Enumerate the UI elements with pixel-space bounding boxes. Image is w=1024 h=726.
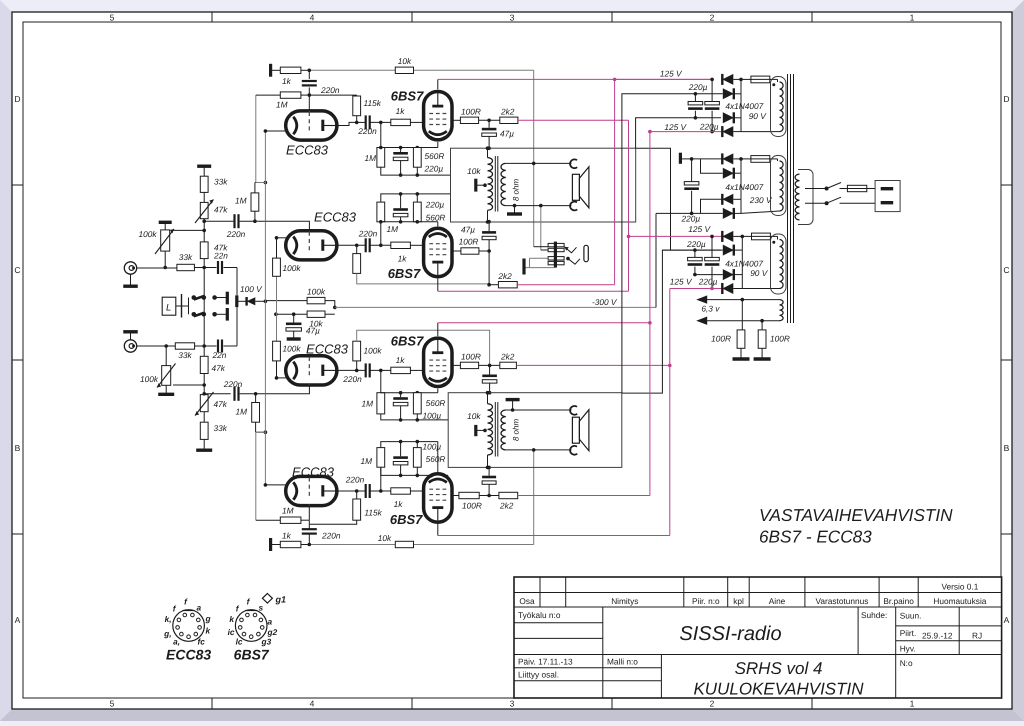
svg-text:100µ: 100µ [423,410,442,420]
capacitor 220n coupling row2 [365,238,367,252]
svg-text:A: A [15,615,21,625]
transformer winding 90V top [780,82,784,132]
resistor 100k feedback [307,297,325,303]
svg-text:8 ohm: 8 ohm [512,419,521,442]
svg-text:1k: 1k [282,531,292,541]
plate wire V5 to coupling [336,369,366,371]
capacitor 220u bridge1 right [711,79,713,101]
svg-text:Nimitys: Nimitys [611,596,638,606]
resistor 560R cathode row2 [413,202,421,222]
jack feed wires [534,246,548,248]
resistor 47k upper ch2 [200,356,208,373]
capacitor 220u bridge2 [691,159,693,182]
svg-text:47µ: 47µ [306,326,320,336]
svg-text:1M: 1M [276,100,288,110]
svg-text:a,: a, [173,637,180,647]
magenta bus C [649,132,651,496]
potentiometer 100k volume ch1 [159,221,172,224]
wire divider node down ch1 [203,268,205,347]
ground 100R left [740,348,742,357]
title block header columns [539,577,541,607]
svg-text:SISSI-radio: SISSI-radio [679,623,781,645]
svg-text:90 V: 90 V [750,268,769,278]
svg-text:Suun.: Suun. [900,611,922,621]
svg-text:8 ohm: 8 ohm [512,179,521,202]
cathode stem 6BS7 row2 [437,222,439,227]
headphone jack sleeve bar [554,242,557,268]
wire 33k to node ch2 [195,345,205,347]
wiper wire 100k pot to divider ch1 [172,229,204,231]
cathode bias bus vertical [276,238,278,378]
pentode 6BS7 V4 [424,228,452,276]
resistor 2k2 row1 [500,117,518,123]
svg-text:C: C [1003,265,1009,275]
node after cap row1 [370,121,391,123]
svg-text:220µ: 220µ [681,214,701,224]
switch contacts row 1 [182,305,189,307]
svg-text:2k2: 2k2 [497,271,512,281]
ground 47u feedback [287,337,301,340]
pentode 6BS7 V6 [424,338,452,386]
resistor 1k grid stopper row2 [391,242,411,248]
svg-text:6BS7: 6BS7 [391,334,424,349]
wire 1k to 6BS7 row2 [410,244,425,246]
headphone jack contacts lower [548,257,564,260]
svg-text:2k2: 2k2 [500,352,515,362]
fuse bridge 1 [741,78,751,80]
svg-text:4: 4 [310,699,315,709]
svg-text:220n: 220n [321,531,341,541]
svg-text:1: 1 [910,699,915,709]
svg-text:1k: 1k [282,76,292,86]
svg-text:100R: 100R [711,334,731,344]
resistor 1M grid leak row3 [380,370,382,392]
wiper wire pot ch2 [173,384,204,386]
svg-text:6BS7: 6BS7 [388,266,421,281]
cathode return row2 [381,221,438,223]
svg-text:10k: 10k [467,411,481,421]
plate wire 6BS7 row2 [437,279,439,292]
resistor 100k cathode row3 [276,361,278,378]
magenta plate line row2 [438,290,629,292]
svg-text:g: g [205,614,211,624]
title block right rows [896,625,1002,627]
rail terminal row1 top-left [269,64,272,77]
resistor 2k2 row2 [498,282,517,288]
transformer core [787,74,789,323]
resistor 100R row4 [452,495,459,497]
wire 1M to row1 grid bus [256,94,280,96]
RCA input jack ch1 [124,262,136,274]
earpiece box L [162,297,176,315]
speaker terminal hooks ch2 [570,406,577,415]
resistor 100R hum right [761,321,763,330]
rail terminal top of input divider [197,164,211,167]
svg-text:ECC83: ECC83 [292,465,335,480]
svg-text:-300 V: -300 V [592,297,618,307]
socket diagram ECC83 [173,610,205,642]
rail terminal jack [522,259,525,275]
diode D1 [615,78,713,80]
cathode return row1 [381,167,451,175]
jack switch plate lower [226,308,229,321]
secondary top wire ch2 [506,409,513,411]
svg-text:220µ: 220µ [424,164,444,174]
switch contacts row 2 [192,312,197,317]
magenta 2k2 line row2 [517,284,614,286]
svg-text:1k: 1k [394,499,404,509]
svg-text:C: C [14,265,20,275]
svg-text:Huomautuksia: Huomautuksia [933,596,986,606]
svg-text:1k: 1k [396,106,406,116]
transformer OPT1 secondary [501,163,506,205]
svg-text:47k: 47k [214,205,228,215]
magenta 2k2 line row1 [518,119,629,121]
svg-text:6BS7: 6BS7 [391,88,424,103]
svg-text:6,3 v: 6,3 v [701,304,720,314]
cathode rail row4 bottom [381,442,438,448]
plate wire V3 to coupling [336,244,366,246]
cathode rail row3 top [381,392,438,394]
capacitor 220n coupling row1 [357,121,366,123]
wire 1M row4 to grid bus [256,519,280,521]
svg-text:90 V: 90 V [749,111,768,121]
wire bridge1 to winding bottom [741,131,780,133]
cathode wire V1 [265,130,286,132]
speaker return bus ch1 [540,206,542,250]
svg-text:100 V: 100 V [240,284,263,294]
capacitor 220n coupling row4 [365,484,367,498]
resistor 115k bias row2 [356,245,358,253]
speaker terminal hooks ch1 [570,159,577,168]
plate wire 6BS7 row1 to supply [437,79,439,89]
mains primary winding [795,174,799,220]
diode D5 [692,158,723,160]
svg-text:k: k [229,614,234,624]
page bevel right [1012,0,1024,721]
capacitor 220u bridge3 left [694,250,696,257]
svg-text:a: a [197,603,202,613]
wire 220n to grid line ch1 [240,220,266,222]
diode D9 [629,235,723,237]
socket diagram 6BS7 [235,610,267,642]
svg-text:33k: 33k [214,177,228,187]
cathode stem 6BS7 row3 [437,389,439,393]
capacitor 220n row4 bottom [302,528,317,530]
resistor 115k row1 [356,94,358,97]
svg-text:D: D [14,94,20,104]
diode D3 [723,112,734,123]
resistor 33k input divider ch1 [200,176,208,192]
svg-text:4: 4 [310,13,315,23]
svg-text:3: 3 [510,699,515,709]
row1 grid feed bus [255,95,257,182]
headphone jack switch arm upper [564,247,576,253]
svg-text:47k: 47k [212,363,226,373]
triode ECC83 V5 [286,356,337,385]
svg-text:RJ: RJ [972,631,982,641]
pentode 6BS7 V8 [424,474,452,522]
wire 1k to 6BS7 row3 [410,369,425,371]
svg-text:ECC83: ECC83 [314,210,357,225]
svg-text:B: B [1004,443,1010,453]
wire 220n to 115k row1 [309,87,356,95]
mains wire upper [805,188,827,190]
svg-text:4x1N4007: 4x1N4007 [725,182,763,192]
svg-text:100k: 100k [139,229,158,239]
capacitor 220u bridge3 right [711,236,713,257]
capacitor 22n ch2 [204,345,216,347]
transformer winding 230V [780,161,784,211]
speaker channel 1 [572,174,579,200]
wire 22n to switch [224,267,238,269]
wire 100k row3 to screen node [357,330,490,365]
resistor 1k grid stopper row1 [391,119,411,125]
diode D11 [695,274,723,276]
title block row divider [514,654,1002,656]
transformer winding 6.3V [780,300,784,321]
svg-text:100R: 100R [770,334,790,344]
resistor 100k bias row3 [353,341,361,361]
diode D6 [701,159,723,173]
magenta plate line row3 [438,322,650,324]
svg-text:100µ: 100µ [423,442,442,452]
magenta 2k2 line row4 [518,495,650,497]
svg-text:s: s [259,603,264,613]
wire plate V1 to coupling row1 [336,122,356,125]
svg-text:4x1N4007: 4x1N4007 [725,101,763,111]
diode D2 [694,92,698,96]
svg-text:560R: 560R [426,454,446,464]
feedback bus bottom vertical [533,450,535,545]
wire 1M ch1 to bus [255,182,266,184]
resistor 1M grid ch2 [255,394,257,403]
wire 47k to node [203,259,205,268]
node 100R/2k2 row3 [479,364,500,366]
wire 100k pot to input line [164,251,166,267]
capacitor 220n input ch2 [233,387,235,401]
headphone jack contacts upper [548,243,564,246]
wire 115k row2 to screen node [357,273,489,284]
capacitor 47u row1 [488,120,490,128]
svg-text:22n: 22n [213,251,228,261]
capacitor 220u cathode row1 [400,148,402,153]
capacitor 47u row4 [488,485,490,496]
title block bottom rows [514,667,661,669]
wire RCA to 33k series ch1 [137,267,177,269]
svg-text:Suhde:: Suhde: [861,610,887,620]
svg-text:g3: g3 [261,637,272,647]
resistor 1M grid leak row1 [380,122,382,147]
svg-text:Työkalu n:o: Työkalu n:o [518,610,561,620]
grid wire V3 [265,221,309,231]
svg-text:Varastotunnus: Varastotunnus [815,596,868,606]
svg-text:33k: 33k [178,350,192,360]
resistor 1k row1 [280,67,301,73]
rail terminal OPT2 secondary top [506,398,520,401]
svg-text:220n: 220n [345,474,365,484]
svg-text:1M: 1M [361,399,373,409]
capacitor 220n coupling row3 [365,363,367,377]
title block mid verticals [602,607,604,698]
svg-text:5: 5 [110,13,115,23]
svg-text:1M: 1M [387,224,399,234]
jack lower feed wires [530,257,549,259]
triode ECC83 V3 [286,231,337,260]
socket 6BS7 g1 cap [262,594,272,604]
bus box2 feed [622,250,721,393]
svg-text:47k: 47k [214,399,228,409]
wire screen node down row2 [488,251,490,285]
svg-text:k,: k, [165,614,172,624]
magenta plate line row1 [438,78,712,80]
ruler ticks left and right [12,184,23,186]
pentode 6BS7 V2 [424,92,452,140]
wire junction to input cap 220n ch1 [204,220,233,222]
svg-text:220n: 220n [223,379,243,389]
transformer OPT2 secondary [501,410,506,450]
cathode bus vertical [264,131,266,485]
wire 10k to grid-leak bus [276,313,307,315]
resistor 2k2 row3 [500,362,517,368]
resistor 2k2 row4 [499,492,518,498]
svg-text:6BS7: 6BS7 [390,512,423,527]
svg-text:47µ: 47µ [500,129,514,139]
plate wire 6BS7 row3 [437,323,439,336]
svg-text:1k: 1k [396,355,406,365]
svg-text:Piirt.: Piirt. [900,628,917,638]
wire bridge1 plus riser [740,79,742,93]
ground 100R right [761,348,763,357]
svg-text:2k2: 2k2 [500,107,515,117]
resistor 1M grid leak row2 [380,222,382,246]
headphone jack tip [584,245,588,261]
node 100R/2k2 row1 [479,119,500,121]
jack switch plate upper [226,292,229,305]
resistor 100R row1 [452,119,460,121]
cathode wire V7 [265,484,286,486]
resistor 1M grid leak row4 [380,467,382,491]
svg-text:kpl: kpl [733,596,744,606]
svg-text:220µ: 220µ [698,277,718,287]
fuse bridge 2 [741,158,751,160]
svg-text:6BS7: 6BS7 [234,647,270,663]
jack sleeve return [525,267,555,269]
diode D8 [656,212,723,214]
mains switch lower [827,197,841,203]
mains wire lower [805,202,827,204]
svg-text:220n: 220n [342,374,362,384]
svg-text:g,: g, [163,629,171,639]
svg-text:Piir. n:o: Piir. n:o [692,596,720,606]
page bevel left [0,0,12,721]
svg-text:560R: 560R [426,398,446,408]
cathode stem 6BS7 row1 [437,142,439,148]
supply box channel 1 [451,148,636,222]
svg-text:1M: 1M [360,456,372,466]
fuse bridge 3 [742,235,751,237]
svg-text:Br.paino: Br.paino [883,596,914,606]
wire 33k to 47k trimmer [203,192,205,202]
resistor 1k row4 [280,541,301,547]
capacitor 47u feedback [293,314,295,322]
svg-text:Osa: Osa [519,596,535,606]
svg-text:10k: 10k [398,56,412,66]
wire 1k to 6BS7 row4 [410,490,425,492]
bus 125V to box1 [636,118,721,148]
svg-text:125 V: 125 V [664,122,687,132]
svg-text:6BS7 - ECC83: 6BS7 - ECC83 [759,527,872,547]
resistor 33k series ch2 [175,343,194,349]
capacitor 220u cathode row2 [393,208,408,211]
svg-text:125 V: 125 V [660,69,683,79]
feedback line top 10k [309,69,533,71]
svg-text:ECC83: ECC83 [286,143,329,158]
svg-text:47µ: 47µ [461,225,475,235]
svg-text:220n: 220n [358,229,378,239]
svg-text:560R: 560R [426,213,446,223]
resistor 1k grid stopper row4 [391,488,411,494]
capacitor 100u cathode row3 [400,393,402,398]
wire RCA to 33k ch2 [137,345,176,347]
filament arrow upper [696,295,707,303]
trimmer 47k lower ch2 [203,374,205,395]
resistor 33k bottom ch2 [203,412,205,423]
node 100R row2 [479,250,489,252]
title block outer [514,577,1002,698]
svg-text:L: L [166,303,171,314]
svg-text:220n: 220n [357,126,377,136]
rail terminal row4 bottom-left [269,538,272,551]
resistor 100R row2 [452,250,461,252]
magenta bus A [614,79,616,284]
svg-text:33k: 33k [179,252,193,262]
resistor 1k grid stopper row3 [391,367,411,373]
triode ECC83 V7 [286,476,337,505]
magenta 2k2 line row3 [516,364,669,366]
svg-text:100k: 100k [140,374,159,384]
magenta plate line row4 [438,535,670,537]
wire bridge3 to winding bottom [742,288,779,290]
mains wire to fuse [840,188,848,190]
svg-text:100R: 100R [459,236,479,246]
svg-text:2k2: 2k2 [499,501,514,511]
magenta bus D [669,289,671,536]
node after cap row3 [370,369,391,371]
grid wire V5 [265,385,309,394]
svg-text:1M: 1M [364,153,376,163]
svg-text:100R: 100R [461,352,481,362]
svg-text:115k: 115k [364,98,382,108]
cathode rail row2 top [381,194,451,202]
bus B+ 90V top [622,94,696,393]
svg-text:25.9.-12: 25.9.-12 [922,631,953,641]
resistor 100k cathode row2 [276,238,278,258]
capacitor 22n ch1 [204,267,216,269]
secondary bottom wire ch1 [506,205,541,207]
svg-text:100k: 100k [283,344,302,354]
resistor 560R cathode row3 [413,393,421,414]
cathode return row4 [381,467,448,475]
transformer OPT2 primary [488,404,493,455]
resistor 560R cathode row1 [416,147,418,149]
svg-text:lc: lc [236,637,243,647]
svg-text:ECC83: ECC83 [306,341,349,356]
mains fuse [847,185,866,191]
wire 22n up to switch ch2 [224,345,238,347]
resistor 10k feedback row4 [395,541,413,547]
svg-text:Versio 0.1: Versio 0.1 [941,582,978,592]
